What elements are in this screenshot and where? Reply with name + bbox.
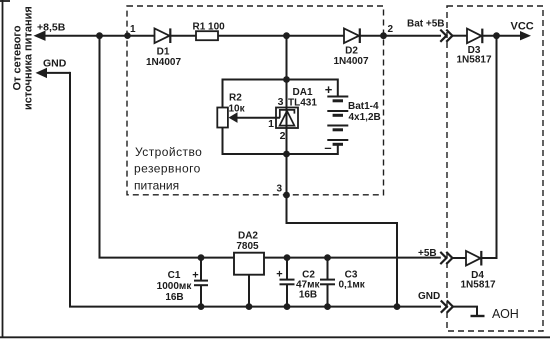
- node 3: [283, 192, 290, 199]
- svg-text:3: 3: [278, 96, 284, 108]
- svg-text:1: 1: [130, 24, 136, 35]
- capacitor C2 plates: [280, 280, 295, 285]
- wire: +8,5V input to D1: [37, 35, 155, 37]
- diode D2: [344, 28, 360, 43]
- wire: main vertical through TL431 down to node 3: [286, 36, 288, 223]
- wire: connector to D4: [452, 257, 466, 259]
- svg-text:DA2: DA2: [238, 230, 258, 241]
- battery bottom lead: [337, 144, 339, 155]
- wire: D4 up to VCC rail: [481, 36, 496, 258]
- battery cell 2: [327, 111, 348, 115]
- capacitor C1 plates: [194, 281, 208, 286]
- node: C1 top: [198, 254, 205, 261]
- diode D4: [466, 251, 481, 266]
- svg-text:GND: GND: [43, 58, 67, 70]
- svg-text:1: 1: [268, 118, 274, 130]
- node 1: [124, 32, 131, 39]
- node 2: [380, 32, 387, 39]
- wire: pot R2 top lead: [222, 79, 224, 108]
- battery cell 1: [327, 97, 348, 101]
- svg-text:1N4007: 1N4007: [146, 57, 181, 68]
- node: DA2 gnd: [246, 303, 253, 310]
- frame left border: [2, 0, 4, 338]
- svg-text:Bat +5В: Bat +5В: [407, 19, 445, 30]
- capacitor C3 top lead: [327, 258, 329, 280]
- svg-text:TL431: TL431: [288, 97, 317, 108]
- wire: DA2 ground pin: [248, 275, 250, 307]
- capacitor C1 bottom lead: [200, 285, 202, 306]
- wire: D1 to R1: [170, 35, 196, 37]
- svg-text:Устройство: Устройство: [135, 145, 202, 159]
- svg-text:резервного: резервного: [134, 162, 201, 176]
- svg-text:DA1: DA1: [293, 87, 313, 98]
- battery cell 3: [327, 126, 348, 130]
- wire: connector to D3: [452, 35, 467, 37]
- battery Bat1-4 top lead: [337, 79, 339, 97]
- wire: node3 elbow to GND rail: [286, 223, 398, 307]
- node: C3 bottom: [324, 303, 331, 310]
- svg-text:1000мк: 1000мк: [157, 281, 193, 292]
- wire: GND input horizontal: [40, 72, 70, 74]
- svg-text:4x1,2В: 4x1,2В: [349, 112, 381, 123]
- connector chevrons: GND to AOH: [441, 301, 453, 313]
- svg-text:Bat1-4: Bat1-4: [348, 101, 379, 112]
- svg-text:+: +: [276, 269, 282, 281]
- node: C2 bottom: [284, 303, 291, 310]
- capacitor C2 top lead: [286, 258, 288, 280]
- wire: D3 to VCC: [482, 35, 527, 37]
- diode D1: [155, 28, 171, 43]
- svg-text:D2: D2: [345, 46, 358, 57]
- svg-text:+: +: [325, 82, 333, 97]
- svg-text:D1: D1: [157, 47, 170, 58]
- wire: pot R2 bottom lead: [222, 128, 224, 156]
- dashed box: backup power device (Устройство резервного питания): [127, 6, 384, 195]
- svg-text:R1 100: R1 100: [193, 21, 226, 32]
- wire: wiper to TL431 pin 1: [237, 117, 281, 119]
- diode D3: [467, 29, 482, 44]
- svg-text:10к: 10к: [229, 104, 246, 115]
- svg-text:1N4007: 1N4007: [333, 56, 368, 67]
- capacitor C3 bottom lead: [327, 284, 329, 306]
- wire: R1 to D2: [218, 35, 344, 37]
- capacitor C2 bottom lead: [286, 284, 288, 306]
- node: C1 bottom: [198, 303, 205, 310]
- battery cell 4: [327, 140, 348, 144]
- svg-text:R2: R2: [229, 93, 242, 104]
- wire: subcircuit top: [223, 79, 338, 81]
- connector chevrons: Bat +5V: [440, 30, 452, 42]
- svg-text:+8,5В: +8,5В: [37, 22, 66, 34]
- wire: subcircuit bottom: [223, 153, 338, 155]
- arrow: VCC output (right): [520, 31, 531, 40]
- svg-text:1N5817: 1N5817: [460, 280, 495, 291]
- node: subcircuit bottom junction: [283, 151, 290, 158]
- resistor R1: [196, 31, 218, 40]
- svg-text:1N5817: 1N5817: [456, 55, 491, 66]
- svg-text:7805: 7805: [236, 241, 259, 252]
- node: node3 to gnd rail: [394, 303, 401, 310]
- svg-text:3: 3: [276, 184, 282, 195]
- potentiometer R2 body: [217, 108, 228, 128]
- frame bottom border: [0, 336, 550, 338]
- svg-text:+: +: [192, 270, 198, 282]
- svg-text:АОН: АОН: [492, 307, 519, 321]
- regulator DA2 7805 box: [234, 253, 264, 275]
- node: VCC junction: [493, 32, 500, 39]
- connector chevrons: +5V to AOH: [440, 252, 452, 264]
- dashed box: AOH (АОН): [447, 6, 543, 331]
- svg-text:0,1мк: 0,1мк: [339, 280, 366, 291]
- wire: GND into AOH: [453, 307, 477, 316]
- wire: +8,5V to DA2 input: [99, 257, 234, 259]
- svg-text:источника питания: источника питания: [23, 6, 35, 110]
- TL431 internal zener bar: [280, 110, 295, 118]
- wire: DA2 output +5V: [265, 257, 441, 259]
- TL431 internal triangle: [280, 111, 295, 126]
- wire: GND vertical rail: [69, 72, 71, 307]
- wire: D2 to Bat+5V connector: [360, 35, 441, 37]
- svg-text:–: –: [324, 140, 331, 155]
- svg-text:GND: GND: [418, 291, 440, 302]
- svg-text:2: 2: [388, 24, 394, 35]
- capacitor C1 top lead: [200, 258, 202, 281]
- svg-text:VCC: VCC: [511, 20, 534, 32]
- arrow: +8,5V input (left): [34, 31, 46, 41]
- wire: +8,5V vertical rail: [99, 36, 101, 258]
- node: C3 top: [324, 254, 331, 261]
- node: subcircuit top junction: [283, 76, 290, 83]
- svg-text:+5В: +5В: [418, 248, 437, 259]
- svg-text:питания: питания: [134, 179, 179, 193]
- capacitor C3 plates: [320, 280, 335, 285]
- svg-text:C1: C1: [168, 270, 181, 281]
- svg-text:16В: 16В: [299, 290, 317, 301]
- svg-text:16В: 16В: [165, 292, 183, 303]
- wire: GND bottom rail: [69, 306, 441, 308]
- frame top-left mark: [0, 0, 10, 2]
- shunt regulator DA1 TL431 box: [276, 108, 298, 129]
- arrow: GND input (left): [36, 68, 48, 78]
- node: TL431 branch on main wire: [283, 32, 290, 39]
- potentiometer R2 wiper arrow: [229, 112, 238, 123]
- svg-text:2: 2: [280, 130, 286, 142]
- node: +8,5V rail tap: [96, 32, 103, 39]
- ground symbol AOH: [471, 315, 485, 317]
- node: C2 top: [284, 254, 291, 261]
